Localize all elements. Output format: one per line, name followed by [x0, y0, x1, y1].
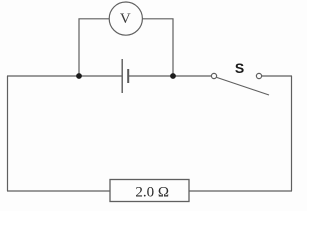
wire left vertical — [7, 76, 9, 191]
wire bottom right segment — [189, 190, 292, 192]
resistor R 2.0 ohm — [110, 180, 189, 202]
wire switch to right corner — [262, 75, 293, 77]
wire bottom left segment — [7, 190, 110, 192]
switch S — [211, 60, 269, 95]
svg-text:S: S — [235, 60, 244, 76]
voltmeter V — [109, 2, 142, 35]
battery cell — [122, 59, 128, 93]
wire top left segment — [7, 75, 122, 77]
wire voltmeter right branch — [142, 19, 173, 76]
wire between battery and switch — [128, 75, 212, 77]
svg-text:2.0 Ω: 2.0 Ω — [135, 185, 169, 201]
wire voltmeter left branch — [79, 19, 109, 76]
svg-text:V: V — [120, 11, 131, 27]
node left junction — [76, 73, 82, 79]
node right junction — [170, 73, 176, 79]
wire right vertical — [291, 76, 293, 191]
